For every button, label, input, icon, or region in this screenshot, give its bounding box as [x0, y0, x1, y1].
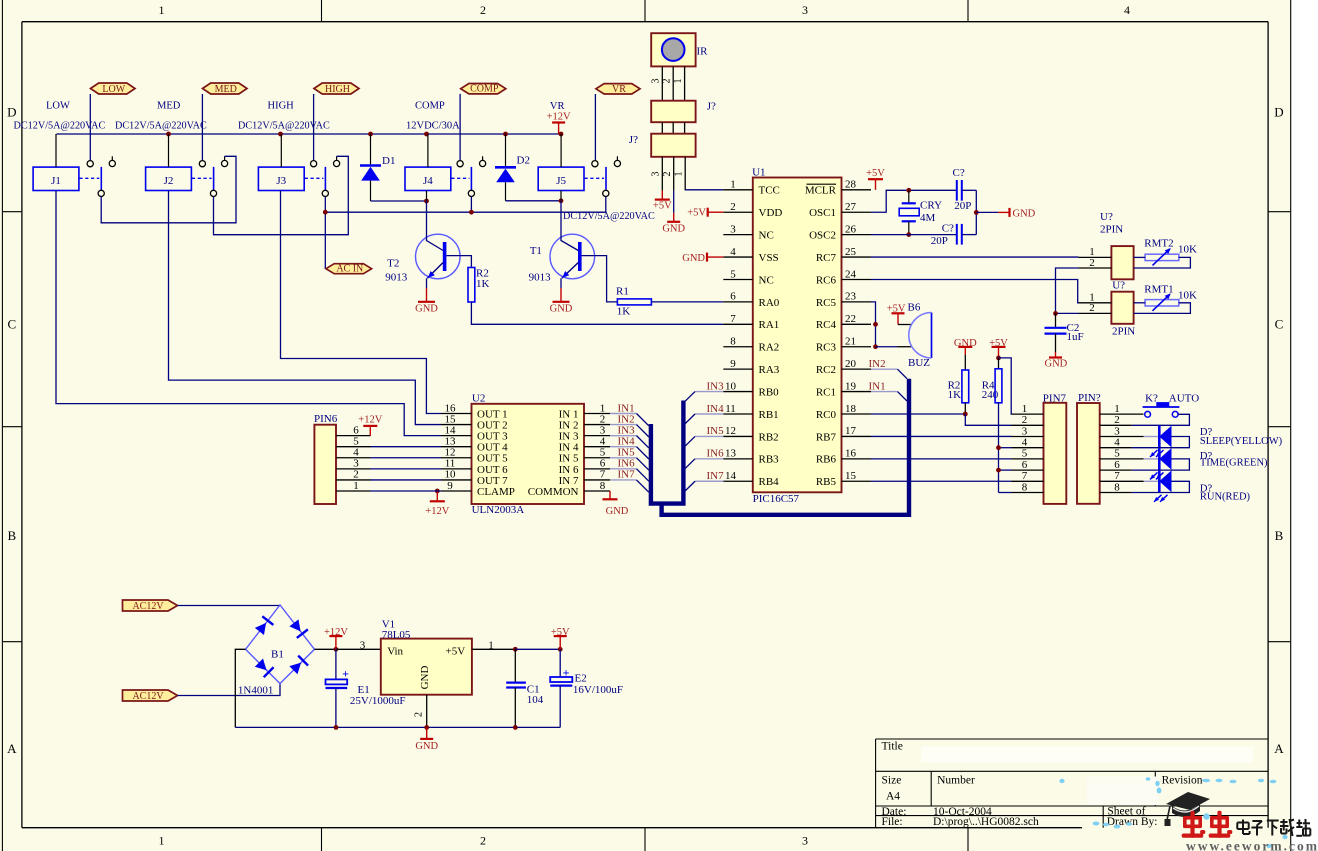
svg-text:22: 22 — [845, 313, 856, 325]
U1 pin 24 lead — [842, 278, 872, 280]
svg-text:D2: D2 — [517, 155, 530, 167]
U1 pin 20 lead — [842, 368, 872, 370]
U1 pin 18 lead — [842, 413, 872, 415]
junction dot +12V node — [334, 647, 339, 652]
svg-text:13: 13 — [725, 448, 737, 460]
svg-text:10K: 10K — [1178, 244, 1197, 256]
PIN7 pin 5 lead — [1012, 458, 1044, 460]
svg-text:C: C — [7, 317, 16, 332]
wire J? pin1 to U1 TCC — [685, 189, 723, 191]
wire AC12V to bridge bottom — [178, 684, 281, 696]
svg-text:10: 10 — [725, 380, 737, 392]
relay J2 common contact — [210, 190, 216, 196]
relay J2 contact 2 — [224, 156, 226, 160]
wire bridge plus to +12V node — [315, 648, 336, 650]
svg-text:2: 2 — [1089, 257, 1095, 269]
U2 pin 9 lead — [441, 490, 472, 492]
svg-text:4: 4 — [1124, 3, 1130, 17]
watermark white backgrounds — [921, 747, 1253, 763]
svg-text:+12V: +12V — [425, 506, 449, 517]
U2 pin 16 lead — [441, 413, 472, 415]
relay J3 contact 1 — [311, 161, 317, 167]
svg-text:LOW: LOW — [46, 100, 70, 111]
svg-text:RC7: RC7 — [816, 252, 837, 264]
wire COMP flag to J4 contact — [459, 94, 461, 161]
svg-text:OSC2: OSC2 — [809, 230, 836, 242]
relay J2 contact 1 — [199, 161, 205, 167]
svg-text:PIC16C57: PIC16C57 — [753, 493, 800, 505]
svg-text:J?: J? — [629, 134, 638, 146]
power +12V on U2 CLAMP wire — [435, 489, 440, 494]
svg-text:5: 5 — [730, 268, 736, 280]
U2 pin 6 lead — [584, 468, 610, 470]
svg-text:2PIN: 2PIN — [1112, 326, 1135, 338]
svg-text:RB0: RB0 — [759, 386, 780, 398]
svg-text:16V/100uF: 16V/100uF — [573, 684, 623, 696]
wire to buzzer lower pin — [876, 346, 898, 348]
svg-text:4: 4 — [730, 246, 736, 258]
svg-text:MED: MED — [157, 100, 181, 111]
junction dot RC3 — [873, 344, 878, 349]
buzzer B6 — [931, 313, 933, 359]
svg-text:RB5: RB5 — [816, 476, 837, 488]
watermark light blue marks — [1202, 779, 1210, 782]
junction dot RC0/R2 — [963, 412, 968, 417]
relay J4 contact 2 — [482, 156, 484, 160]
svg-text:IN1: IN1 — [869, 380, 886, 392]
svg-text:2: 2 — [1089, 302, 1095, 314]
U1 pin 3 lead — [723, 234, 753, 236]
svg-text:NC: NC — [759, 230, 774, 242]
svg-text:3: 3 — [360, 639, 366, 651]
junction dot AC rail / J4 common — [469, 210, 474, 215]
svg-text:+5V: +5V — [687, 208, 706, 219]
svg-text:2: 2 — [661, 79, 672, 84]
U2 pin 8 lead — [584, 490, 610, 492]
ground below C2 — [1055, 352, 1057, 358]
diode D2 — [505, 134, 507, 166]
svg-text:RB3: RB3 — [759, 454, 780, 466]
power +5V to buzzer — [892, 312, 905, 314]
svg-text:B: B — [1275, 528, 1284, 543]
bridge diode bottom-right — [289, 663, 301, 675]
junction dots on 0V rail — [334, 725, 339, 730]
relay J4 switch dashed link — [451, 177, 469, 179]
PIN? pin 4 lead — [1100, 447, 1132, 449]
relay J3 switch dashed link — [305, 177, 324, 179]
svg-text:RA0: RA0 — [759, 297, 780, 309]
svg-text:+: + — [563, 665, 570, 679]
wire R4 to LED anodes rows 4/6/8 — [998, 403, 1000, 493]
U2 pin 1 lead — [584, 413, 610, 415]
svg-text:6: 6 — [730, 291, 736, 303]
svg-text:3: 3 — [1114, 425, 1120, 437]
svg-text:T1: T1 — [530, 245, 542, 257]
svg-text:240: 240 — [982, 389, 999, 401]
svg-text:J4: J4 — [423, 175, 433, 187]
U1 pin 11 lead — [723, 413, 753, 415]
LED D? time cathode wire — [1144, 458, 1160, 460]
transistor T2 base bar — [443, 242, 447, 271]
svg-text:B6: B6 — [908, 302, 921, 314]
svg-text:3: 3 — [730, 223, 736, 235]
junction dot D2/J5 coil node — [559, 198, 564, 203]
diode D1 — [370, 134, 372, 164]
svg-text:1: 1 — [353, 480, 359, 492]
wire J3 common down to AC IN node — [324, 197, 326, 213]
LED D? time emission arrows — [1150, 472, 1158, 479]
wire RC0 run — [871, 413, 965, 415]
svg-text:J3: J3 — [276, 175, 286, 187]
connector PIN6 — [314, 425, 336, 504]
crystal CRY 4M — [908, 190, 910, 203]
U1 pin 27 lead — [842, 211, 872, 213]
U1 pin 26 lead — [842, 234, 872, 236]
svg-text:RMT1: RMT1 — [1144, 283, 1173, 295]
PIN? pin 2 lead — [1100, 424, 1132, 426]
LED D? sleep cathode wire — [1144, 436, 1160, 438]
svg-text:10K: 10K — [1178, 289, 1197, 301]
power +5V on J? pin3 — [661, 190, 663, 199]
watermark site name glyphs — [1242, 820, 1244, 835]
svg-text:8: 8 — [1114, 481, 1120, 493]
svg-text:16: 16 — [845, 448, 857, 460]
svg-text:14: 14 — [725, 470, 737, 482]
wires RMT1 loop — [1134, 302, 1146, 304]
U2 pin 14 lead — [441, 435, 472, 437]
wire K? to PIN? rows 1-2 — [1132, 414, 1190, 425]
svg-text:24: 24 — [845, 268, 857, 280]
svg-text:AUTO: AUTO — [1169, 392, 1199, 404]
U2 pin 11 lead — [441, 468, 472, 470]
svg-text:+12V: +12V — [324, 627, 348, 638]
PIN7 pin 1 lead — [1012, 413, 1044, 415]
power +5V output — [559, 636, 561, 649]
wire RC7 to U? pin1 — [871, 256, 1079, 258]
U1 MCLR overbar — [807, 183, 837, 185]
svg-text:6: 6 — [1114, 459, 1120, 471]
svg-text:RA1: RA1 — [759, 319, 780, 331]
svg-text:1: 1 — [673, 79, 684, 84]
port flag LOW — [91, 83, 136, 94]
svg-text:1: 1 — [159, 3, 165, 17]
svg-text:1uF: 1uF — [1067, 331, 1084, 343]
U1 pin 9 lead — [723, 368, 753, 370]
svg-text:2PIN: 2PIN — [1100, 224, 1123, 236]
svg-text:COMP: COMP — [415, 100, 445, 111]
port flag HIGH — [314, 83, 359, 94]
PIN7 pin 6 lead — [1012, 469, 1044, 471]
capacitor C1 (104) — [514, 649, 516, 682]
transistor T1 circle — [550, 234, 595, 279]
wire J2 common to J3 contact2 — [214, 156, 349, 234]
svg-text:IR: IR — [697, 46, 709, 58]
svg-text:GND: GND — [1045, 359, 1068, 370]
PIN7 pin 4 lead — [1012, 447, 1044, 449]
svg-text:2: 2 — [480, 3, 486, 17]
junction dot E2 top — [558, 647, 563, 652]
relay J5 coil pin to rail — [560, 134, 562, 167]
svg-text:RA3: RA3 — [759, 364, 780, 376]
junction dot D1/J4 coil node — [424, 199, 429, 204]
wire D2 to J5 coil — [506, 200, 562, 202]
wire OSC1 loop — [871, 190, 957, 212]
net label IN1 on RC1 — [871, 391, 898, 393]
PIN7 pin 8 lead — [1012, 492, 1044, 494]
U1 pin 19 lead — [842, 391, 872, 393]
svg-text:COMMON: COMMON — [528, 486, 579, 498]
relay J3 switch arm — [324, 167, 326, 190]
svg-text:TCC: TCC — [759, 185, 780, 197]
relay J4 coil bottom wire — [426, 191, 428, 202]
svg-text:RC3: RC3 — [816, 342, 837, 354]
U1 pin 7 lead — [723, 323, 753, 325]
U1 pin 10 lead — [723, 391, 753, 393]
port flag AC12V (upper) — [123, 600, 178, 611]
svg-text:7: 7 — [1022, 470, 1028, 482]
svg-text:7: 7 — [1114, 470, 1120, 482]
wire AC12V to bridge top — [178, 604, 281, 607]
bus U2-to-U1 loop — [651, 401, 684, 504]
U1 pin 15 lead — [842, 480, 872, 482]
svg-text:NC: NC — [759, 274, 774, 286]
wire J3 coil to U2 OUT1 — [281, 191, 442, 414]
svg-text:26: 26 — [845, 223, 857, 235]
bridge diode top-right — [289, 619, 300, 631]
PIN6 pin 4 lead — [336, 457, 371, 459]
U1 pin 13 lead — [723, 458, 753, 460]
power +5V on U1 pin28 MCLR — [875, 180, 877, 190]
relay J5 switch arm — [605, 167, 607, 190]
svg-text:J2: J2 — [164, 175, 174, 187]
regulator V1 78L05 — [381, 639, 472, 695]
svg-text:2: 2 — [662, 172, 673, 177]
PIN? pin 5 lead — [1100, 458, 1144, 460]
svg-text:IN7: IN7 — [618, 469, 636, 481]
port flag AC12V (lower) — [123, 690, 178, 701]
svg-text:PIN6: PIN6 — [314, 413, 338, 425]
bridge rectifier B1 — [246, 605, 315, 684]
svg-text:9013: 9013 — [529, 272, 552, 284]
transistor T1 emitter — [562, 263, 579, 279]
connector PIN7 — [1044, 403, 1067, 504]
svg-text:PIN7: PIN7 — [1043, 392, 1067, 404]
svg-text:1K: 1K — [476, 278, 490, 290]
svg-text:Size: Size — [882, 774, 902, 786]
relay J5 common contact — [603, 190, 609, 196]
svg-text:RC4: RC4 — [816, 319, 837, 331]
U1 pin 17 lead — [842, 435, 872, 437]
J? lower pin leads — [661, 157, 663, 191]
relay J5 coil bottom wire — [560, 191, 562, 201]
transistor T2 emitter to ground — [426, 278, 428, 288]
svg-text:U?: U? — [1112, 280, 1125, 292]
sheet inner border — [22, 21, 1268, 23]
svg-text:LOW: LOW — [102, 84, 125, 95]
wire RC6 to U? lower pin1 — [871, 279, 1079, 302]
relay J2 coil box — [146, 167, 192, 190]
LED D? run anode loop — [1132, 481, 1190, 492]
svg-text:HIGH: HIGH — [325, 84, 350, 95]
svg-text:www.eeworm.com: www.eeworm.com — [1186, 839, 1318, 851]
svg-text:IN6: IN6 — [707, 448, 725, 460]
U1 pin 5 lead — [723, 278, 753, 280]
svg-text:23: 23 — [845, 291, 857, 303]
svg-text:A: A — [7, 741, 17, 756]
relay J4 common contact — [468, 190, 474, 196]
svg-text:1K: 1K — [617, 306, 631, 318]
svg-text:3: 3 — [802, 3, 808, 17]
wires U1 RB7/RB6/RB5 to PIN7 — [871, 435, 1012, 437]
ground on 0V rail — [426, 727, 428, 739]
svg-text:E2: E2 — [575, 673, 587, 685]
U2 pin 10 lead — [441, 479, 472, 481]
svg-text:RB7: RB7 — [816, 431, 837, 443]
V1 pin2 lead — [426, 695, 428, 728]
svg-text:AC12V: AC12V — [132, 691, 164, 702]
ground on U2 COMMON — [609, 491, 611, 499]
svg-text:3: 3 — [651, 79, 662, 84]
wire T1 base to R1 — [582, 256, 618, 302]
svg-text:2: 2 — [480, 834, 486, 848]
svg-text:RUN(RED): RUN(RED) — [1200, 491, 1251, 502]
svg-text:RC2: RC2 — [816, 364, 836, 376]
port flag COMP — [461, 84, 506, 94]
U1 pin 22 lead — [842, 323, 872, 325]
svg-text:GND: GND — [419, 666, 431, 690]
svg-text:+12V: +12V — [358, 415, 382, 426]
wire J5 common drop — [605, 197, 607, 213]
switched-AC rail — [325, 211, 606, 213]
junction dot R4/row6 — [996, 468, 1001, 473]
svg-text:RMT2: RMT2 — [1144, 238, 1173, 250]
connector U? 2PIN (upper) — [1111, 246, 1133, 279]
svg-text:28: 28 — [845, 179, 857, 191]
svg-text:12VDC/30A: 12VDC/30A — [406, 120, 460, 131]
svg-text:VSS: VSS — [759, 252, 779, 264]
connector J? (upper) — [651, 101, 695, 123]
svg-text:+5V: +5V — [866, 168, 885, 179]
PIN6 pin 6 lead — [336, 435, 371, 437]
relay J1 common contact — [98, 190, 104, 196]
pins between connectors — [661, 122, 663, 134]
relay J4 coil pin to rail — [427, 134, 429, 167]
U? upper pin leads — [1079, 256, 1112, 258]
power +12V at VR rail — [558, 123, 560, 135]
svg-text:1: 1 — [673, 172, 684, 177]
svg-text:C: C — [1275, 317, 1284, 332]
svg-text:RB2: RB2 — [759, 431, 779, 443]
PIN? pin 3 lead — [1100, 436, 1144, 438]
U? lower pin leads — [1079, 302, 1112, 304]
svg-text:U2: U2 — [472, 392, 485, 404]
+12V coil supply rail — [57, 133, 561, 135]
watermark chongchong characters — [1190, 811, 1194, 838]
svg-text:+12V: +12V — [547, 111, 571, 122]
junction dot C2 node — [1053, 311, 1058, 316]
svg-text:DC12V/5A@220VAC: DC12V/5A@220VAC — [563, 211, 655, 222]
svg-text:GND: GND — [662, 223, 685, 234]
relay J1 switch arm — [100, 167, 102, 190]
PIN6 pin 1 lead — [336, 490, 371, 492]
PIN7 pin 7 lead — [1012, 480, 1044, 482]
svg-text:5: 5 — [1114, 448, 1120, 460]
wire AC IN vertical to flag — [324, 212, 326, 269]
junction dot +5V node — [996, 356, 1001, 361]
sheet outer border — [1, 0, 3, 851]
svg-text:Title: Title — [882, 740, 903, 752]
svg-text:DC12V/5A@220VAC: DC12V/5A@220VAC — [238, 120, 330, 131]
relay J3 common contact — [322, 190, 328, 196]
wire HIGH flag to J3 contact — [313, 94, 315, 161]
svg-text:+5V: +5V — [551, 627, 570, 638]
svg-text:RB4: RB4 — [759, 476, 780, 488]
svg-text:COMP: COMP — [470, 84, 499, 95]
relay J1 contact 1 — [87, 161, 93, 167]
svg-text:15: 15 — [845, 470, 857, 482]
svg-text:1K: 1K — [948, 389, 962, 401]
LED D? time anode loop — [1132, 459, 1190, 470]
power +12V on PIN6 pin6 — [369, 426, 371, 435]
wire D1 to J4 coil — [371, 200, 427, 202]
junction dot crystal top — [906, 188, 911, 193]
svg-text:9: 9 — [447, 480, 453, 492]
junction dot crystal bottom — [906, 232, 911, 237]
svg-text:RC0: RC0 — [816, 409, 837, 421]
svg-text:GND: GND — [682, 253, 705, 264]
svg-text:File:: File: — [882, 816, 903, 828]
relay J5 contact 2 — [616, 156, 618, 160]
relay J3 contact 2 — [336, 156, 338, 160]
svg-text:21: 21 — [845, 336, 856, 348]
svg-text:6: 6 — [1022, 459, 1028, 471]
wire node to V1 pin3 — [336, 648, 381, 650]
bridge diode bottom-left — [255, 659, 267, 671]
IR pins to connector J? — [661, 66, 663, 100]
junction dots on +12V rail — [166, 132, 171, 137]
U2 pin 7 lead — [584, 479, 610, 481]
junction dot RC4 — [873, 322, 878, 327]
svg-text:Vin: Vin — [387, 645, 403, 657]
svg-text:CRY: CRY — [920, 199, 942, 211]
U2 pin 15 lead — [441, 424, 472, 426]
svg-text:RC6: RC6 — [816, 274, 837, 286]
svg-text:IN4: IN4 — [707, 403, 725, 415]
wires PIN6 to U2 — [371, 446, 442, 448]
svg-text:ULN2003A: ULN2003A — [472, 504, 525, 516]
resistor R2 pullup (1K) — [962, 370, 969, 403]
relay J5 switch dashed link — [585, 177, 605, 179]
svg-text:GND: GND — [415, 303, 438, 314]
relay J4 contact 1 — [457, 161, 463, 167]
U1 pin 8 lead — [723, 346, 753, 348]
svg-text:GND: GND — [550, 303, 573, 314]
svg-text:IN5: IN5 — [707, 425, 725, 437]
PIN7 pin 2 lead — [1012, 424, 1044, 426]
svg-text:3: 3 — [1022, 425, 1028, 437]
LED D? run symbol — [1158, 470, 1161, 492]
PIN6 pin 5 lead — [336, 446, 371, 448]
svg-text:11: 11 — [725, 403, 736, 415]
svg-text:RB6: RB6 — [816, 454, 837, 466]
svg-text:D1: D1 — [382, 155, 395, 167]
wire +5V to PIN7 pin1 — [999, 358, 1012, 414]
port flag VR — [596, 84, 640, 94]
net labels IN1-IN7 with bus entries — [610, 413, 637, 415]
svg-text:DC12V/5A@220VAC: DC12V/5A@220VAC — [115, 120, 207, 131]
svg-text:20: 20 — [845, 358, 857, 370]
U2 pin 12 lead — [441, 457, 472, 459]
